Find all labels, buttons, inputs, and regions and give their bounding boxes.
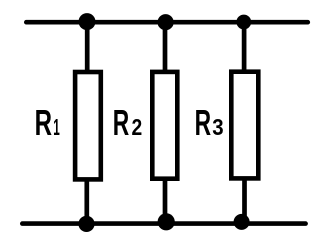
resistor R2 body xyxy=(152,72,177,179)
wire: R2 top lead xyxy=(163,22,168,72)
node: junction dot bottom of R1 xyxy=(78,216,94,232)
wire: R1 top lead xyxy=(85,22,90,72)
svg-text:R: R xyxy=(195,104,212,143)
svg-text:R: R xyxy=(113,104,130,143)
node: junction dot bottom of R2 xyxy=(158,213,175,230)
wire: R3 top lead xyxy=(242,22,247,72)
wire: R2 bottom lead xyxy=(163,178,168,222)
resistor R3 body xyxy=(231,72,258,179)
svg-text:1: 1 xyxy=(53,113,60,140)
wire: R1 bottom lead xyxy=(84,179,89,224)
node: junction dot top of R3 xyxy=(236,15,251,30)
svg-text:2: 2 xyxy=(132,114,143,140)
wire: bottom rail xyxy=(22,221,305,226)
svg-text:R: R xyxy=(35,102,52,143)
resistor R1 body xyxy=(75,72,101,179)
node: junction dot bottom of R3 xyxy=(234,214,250,230)
node: junction dot top of R2 xyxy=(158,14,174,30)
svg-text:3: 3 xyxy=(212,114,223,141)
wire: top rail xyxy=(26,20,308,25)
node: junction dot top of R1 xyxy=(79,13,96,30)
wire: R3 bottom lead xyxy=(242,178,247,222)
